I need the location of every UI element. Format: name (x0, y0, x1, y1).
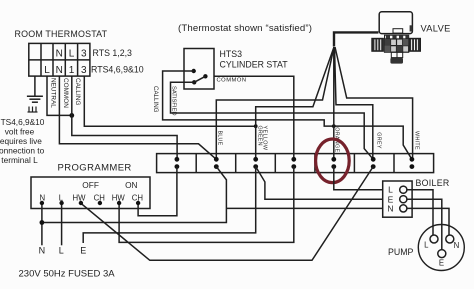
svg-text:(Thermostat shown “satisfied”): (Thermostat shown “satisfied”) (178, 23, 312, 34)
wire programmer L down (61, 203, 63, 245)
wire col4 to HW on (119, 167, 294, 243)
svg-text:PROGRAMMER: PROGRAMMER (58, 162, 132, 173)
svg-text:OFF: OFF (82, 180, 99, 190)
boiler terminal circles (400, 186, 407, 212)
wire col5 to boiler L (334, 167, 383, 190)
svg-text:N: N (39, 246, 46, 256)
room thermostat label (15, 29, 108, 39)
wire col6 to HW off (81, 167, 373, 261)
valve body (372, 12, 421, 64)
programmer OFF ON labels (82, 180, 137, 190)
highlight ellipse (316, 139, 350, 183)
label COMMON small (217, 78, 247, 84)
node N junction (40, 220, 45, 225)
svg-text:volt free: volt free (5, 127, 35, 137)
svg-text:RTS4,6,9&10: RTS4,6,9&10 (91, 64, 144, 74)
strip terminals dots (175, 157, 415, 169)
wire col3 to E (83, 167, 256, 243)
svg-text:N: N (454, 241, 460, 250)
label ORANGE (334, 127, 340, 152)
pump terminals (430, 235, 454, 258)
valve wire green-yellow (256, 47, 334, 159)
wire satisfied to strip col6 (171, 82, 374, 159)
boiler terminal letters (387, 185, 393, 214)
programmer label (58, 162, 132, 173)
wire room stat calling to col3 junction (84, 76, 255, 126)
label CALLING (74, 78, 81, 105)
junction strip (157, 154, 434, 173)
wire boiler L to pump L (407, 190, 433, 236)
svg-text:COMMON: COMMON (217, 78, 247, 84)
svg-text:BLUE: BLUE (216, 131, 222, 146)
programmer box (31, 177, 150, 209)
wire cyl calling to strip col7 (163, 71, 412, 159)
svg-text:requires live: requires live (0, 136, 42, 146)
pump terminal letters (424, 241, 459, 268)
svg-text:N: N (56, 49, 63, 60)
label CALLING vertical (152, 86, 159, 113)
label BLUE (216, 131, 222, 146)
svg-text:N: N (56, 65, 63, 76)
programmer terminal dots (40, 201, 141, 205)
svg-text:L: L (69, 49, 75, 60)
label NEUTRAL (49, 78, 56, 108)
svg-text:NEUTRAL: NEUTRAL (49, 78, 56, 108)
svg-text:CYLINDER STAT: CYLINDER STAT (220, 60, 289, 70)
svg-text:L: L (44, 65, 50, 76)
svg-text:L: L (59, 246, 64, 256)
node calling junction on col3 riser (254, 124, 258, 128)
svg-text:HTS4,6,9&10: HTS4,6,9&10 (0, 117, 45, 127)
svg-text:3: 3 (81, 65, 87, 76)
svg-text:connection to: connection to (0, 146, 45, 156)
svg-text:L: L (424, 241, 429, 250)
svg-text:WHITE: WHITE (413, 131, 419, 150)
wire boiler N to pump N (407, 208, 449, 235)
svg-text:CALLING: CALLING (152, 86, 159, 113)
wire terminal1 to strip col1 (72, 76, 177, 159)
wire boiler E to pump E (407, 199, 442, 250)
valve wire orange (333, 47, 335, 159)
left note text (0, 117, 45, 165)
svg-text:PUMP: PUMP (388, 247, 414, 257)
svg-text:ROOM THERMOSTAT: ROOM THERMOSTAT (15, 29, 108, 39)
room thermostat terminal block (29, 43, 90, 76)
label GREY (376, 132, 382, 149)
cylinder stat lever (193, 76, 206, 83)
wire programmer N down (41, 203, 43, 245)
svg-text:terminal L: terminal L (1, 155, 38, 165)
supply rating label (19, 269, 116, 280)
valve wire blue (216, 47, 334, 159)
svg-text:HTS3: HTS3 (220, 49, 243, 59)
ground (27, 76, 43, 112)
svg-text:COMMON: COMMON (62, 78, 69, 108)
valve wire grey (335, 47, 373, 159)
svg-text:E: E (439, 259, 444, 268)
svg-text:ON: ON (125, 180, 137, 190)
boiler label (416, 178, 450, 188)
cylinder stat contacts (192, 69, 208, 85)
node calling crosses orange (332, 124, 336, 128)
svg-text:230V 50Hz FUSED 3A: 230V 50Hz FUSED 3A (19, 269, 116, 280)
svg-text:YELLOW: YELLOW (261, 126, 267, 151)
pump body (418, 225, 464, 271)
supply labels N L E (39, 246, 87, 256)
boiler box (383, 181, 412, 217)
pump label (388, 247, 414, 257)
caption thermostat satisfied (178, 23, 312, 34)
wire col1 to CH on (138, 167, 177, 216)
svg-text:1: 1 (69, 65, 75, 76)
svg-text:3: 3 (81, 49, 87, 60)
svg-text:L: L (388, 185, 393, 195)
svg-text:GREY: GREY (376, 132, 382, 149)
wire col2 diagonal (42, 167, 227, 223)
wire col2 branch to boiler N (226, 207, 382, 209)
label COMMON (62, 78, 69, 108)
svg-text:VALVE: VALVE (421, 24, 451, 34)
svg-text:N: N (387, 204, 393, 214)
cylinder stat labels (220, 49, 289, 70)
svg-text:RTS 1,2,3: RTS 1,2,3 (93, 48, 133, 58)
svg-text:SATISFIED: SATISFIED (171, 86, 177, 116)
label SATISFIED vertical (171, 86, 177, 116)
label GREEN YELLOW (256, 126, 267, 151)
label WHITE (413, 131, 419, 150)
cylinder stat box U1 (184, 49, 214, 90)
valve wire white (335, 47, 413, 159)
programmer terminal labels (39, 193, 143, 202)
valve label (421, 24, 451, 34)
svg-text:HW: HW (73, 193, 87, 202)
wire col3 to boiler E (256, 167, 383, 200)
terminal row labels RTS (91, 48, 144, 74)
svg-text:BOILER: BOILER (416, 178, 450, 188)
wire L to common link (47, 76, 72, 115)
valve cable (334, 32, 378, 46)
svg-text:E: E (80, 246, 86, 256)
node L-1 junction (69, 113, 74, 118)
wire cyl common to strip col4 (214, 76, 294, 159)
svg-text:CALLING: CALLING (74, 78, 81, 105)
wire neutral to strip col2 (59, 76, 216, 159)
